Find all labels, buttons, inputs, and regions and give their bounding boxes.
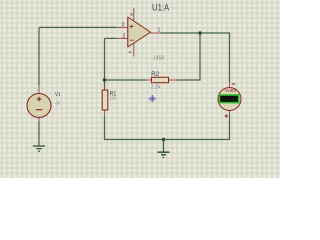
- resistor R1 pin stubs: [104, 87, 106, 115]
- battery V1 body: [27, 94, 51, 118]
- svg-text:2.2k: 2.2k: [110, 96, 117, 102]
- resistor R2 body: [152, 77, 169, 82]
- svg-text:Volts: Volts: [225, 88, 236, 93]
- svg-text:U1:A: U1:A: [152, 3, 170, 14]
- voltmeter pin stubs: [229, 82, 231, 114]
- svg-text:1: 1: [158, 28, 161, 34]
- svg-text:V1: V1: [55, 92, 61, 98]
- voltmeter LCD: [220, 95, 239, 103]
- op-amp U1:A pin stubs: [116, 8, 161, 56]
- wire: output to voltmeter: [161, 33, 230, 82]
- pin 3 stub: [116, 26, 128, 28]
- schematic background: [0, 0, 280, 178]
- op-amp minus input mark: [130, 39, 134, 41]
- svg-text:1458: 1458: [153, 55, 164, 61]
- svg-text:+0.00: +0.00: [223, 99, 236, 103]
- wire: V1+ to pin3 horizontal: [39, 26, 116, 28]
- wire: left vertical V1 to top: [38, 27, 40, 85]
- node junction at output/feedback: [198, 31, 201, 34]
- voltmeter minus terminal mark: [232, 83, 235, 85]
- wire: node to R2 left: [105, 79, 146, 81]
- voltmeter plus terminal mark: [225, 114, 229, 118]
- resistor R1 body: [102, 90, 108, 110]
- pin 2 stub: [116, 37, 128, 39]
- resistor R2 pin stubs: [146, 79, 177, 81]
- wire: voltmeter bottom to ground bus: [105, 114, 230, 140]
- pin 1 stub: [151, 32, 161, 34]
- origin marker (blue): [149, 96, 155, 102]
- wire: ground stub on bus: [163, 140, 165, 152]
- ground on bus: [158, 152, 170, 157]
- node junction at ground stub: [162, 138, 165, 141]
- wire: V1 bottom to ground: [38, 121, 40, 146]
- op-amp U1:A body: [128, 17, 151, 47]
- svg-text:R2: R2: [151, 71, 160, 78]
- wire: R2 right to feedback vertical: [177, 33, 201, 80]
- svg-text:3: 3: [122, 22, 125, 28]
- ground under V1: [33, 146, 45, 151]
- V1 minus mark: [36, 109, 42, 111]
- wire: pin2 horizontal: [105, 37, 117, 39]
- node junction at R1/R2: [103, 78, 106, 81]
- svg-text:-3V: -3V: [55, 100, 61, 105]
- voltmeter body: [218, 88, 241, 111]
- pin 8 power stub: [133, 8, 135, 22]
- wire: inverting node vertical: [104, 38, 106, 87]
- op-amp plus input mark: [130, 25, 134, 29]
- V1 plus mark: [37, 97, 42, 101]
- svg-text:2.2k: 2.2k: [151, 84, 162, 90]
- battery V1 pin stubs: [38, 86, 40, 122]
- pin 4 power stub: [133, 44, 135, 57]
- svg-text:2: 2: [123, 34, 126, 40]
